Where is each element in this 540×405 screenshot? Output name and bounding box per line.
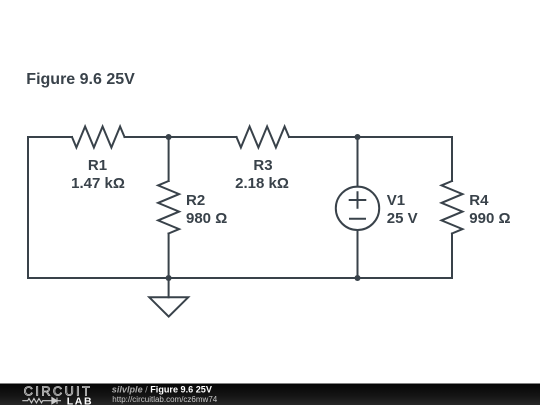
V1 plus sign: [350, 192, 366, 208]
svg-text:http://circuitlab.com/cz6mw74: http://circuitlab.com/cz6mw74: [112, 395, 217, 404]
svg-text:LAB: LAB: [67, 395, 93, 405]
ground symbol: [149, 297, 188, 316]
node ground-right junction dot: [355, 275, 361, 281]
wire R1 to node A: [125, 136, 169, 138]
resistor R3: [237, 127, 290, 148]
wire R2 bottom lead: [168, 234, 170, 279]
logo resistor-diode line: [22, 398, 61, 404]
svg-text:R4: R4: [469, 192, 489, 209]
wire R4 top lead: [451, 137, 453, 181]
svg-text:990 Ω: 990 Ω: [469, 210, 510, 227]
wire node A to R3: [169, 136, 237, 138]
svg-text:silvlple / Figure 9.6 25V: silvlple / Figure 9.6 25V: [112, 385, 212, 395]
svg-text:2.18 kΩ: 2.18 kΩ: [235, 175, 289, 192]
svg-text:980 Ω: 980 Ω: [186, 210, 227, 227]
svg-text:25 V: 25 V: [387, 210, 418, 227]
wire left side: [27, 137, 29, 278]
wire top-left: [28, 136, 72, 138]
V1 minus sign: [350, 218, 365, 220]
node B junction dot: [355, 134, 361, 140]
resistor R1: [72, 127, 125, 148]
resistor R4: [442, 181, 463, 234]
wire R3 to node B: [289, 136, 358, 138]
svg-text:R1: R1: [88, 157, 107, 174]
svg-text:R3: R3: [253, 157, 272, 174]
ground stub: [168, 278, 170, 297]
svg-text:V1: V1: [387, 192, 405, 209]
wire V1 bottom lead: [357, 230, 359, 278]
svg-text:R2: R2: [186, 192, 205, 209]
node ground-left junction dot: [166, 275, 172, 281]
voltage source V1 circle: [336, 187, 379, 230]
node A junction dot: [166, 134, 172, 140]
svg-text:1.47 kΩ: 1.47 kΩ: [71, 175, 125, 192]
wire bottom: [28, 277, 452, 279]
wire R4 bottom lead: [451, 234, 453, 279]
resistor R2: [158, 181, 179, 234]
wire V1 top lead: [357, 137, 359, 187]
wire R2 top lead: [168, 137, 170, 181]
svg-text:Figure 9.6 25V: Figure 9.6 25V: [26, 71, 135, 88]
wire node B to top-right corner: [358, 136, 453, 138]
